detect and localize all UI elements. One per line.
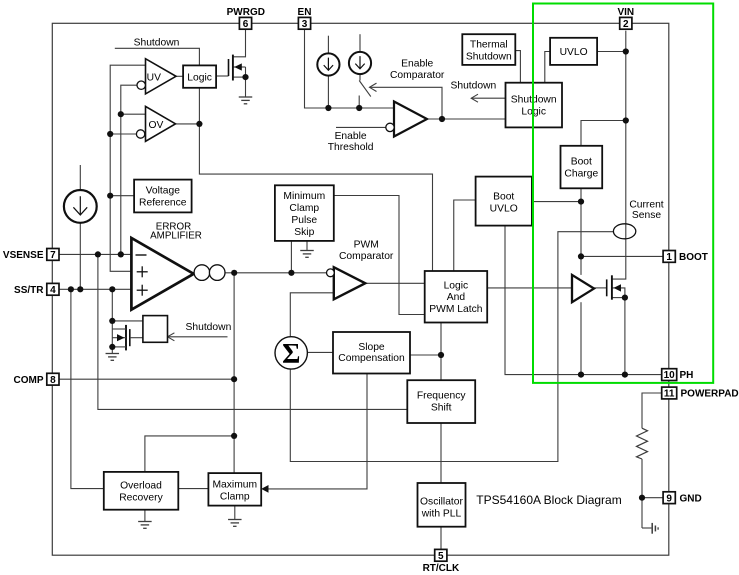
svg-text:Skip: Skip [294, 227, 314, 238]
svg-text:Boot: Boot [571, 157, 592, 168]
svg-text:Recovery: Recovery [119, 493, 163, 504]
svg-text:Thermal: Thermal [470, 39, 508, 50]
svg-text:GND: GND [680, 493, 702, 504]
svg-text:Clamp: Clamp [289, 203, 319, 214]
svg-text:BOOT: BOOT [679, 252, 708, 263]
svg-text:9: 9 [666, 493, 672, 504]
svg-text:VIN: VIN [617, 7, 634, 18]
svg-text:TPS54160A Block Diagram: TPS54160A Block Diagram [476, 493, 621, 507]
svg-text:2: 2 [623, 19, 629, 30]
svg-text:Clamp: Clamp [220, 492, 250, 503]
svg-text:RT/CLK: RT/CLK [423, 563, 460, 574]
svg-text:Comparator: Comparator [339, 251, 394, 262]
svg-text:with PLL: with PLL [421, 509, 462, 520]
svg-text:COMP: COMP [14, 375, 44, 386]
svg-text:Σ: Σ [282, 339, 300, 370]
svg-text:Enable: Enable [335, 131, 367, 142]
svg-text:Minimum: Minimum [283, 191, 325, 202]
svg-text:AMPLIFIER: AMPLIFIER [150, 231, 202, 242]
svg-text:Reference: Reference [139, 198, 187, 209]
svg-text:Pulse: Pulse [291, 215, 317, 226]
svg-text:Shutdown: Shutdown [466, 51, 512, 62]
svg-text:Comparator: Comparator [390, 70, 445, 81]
svg-text:Charge: Charge [564, 169, 598, 180]
svg-text:Compensation: Compensation [338, 353, 405, 364]
svg-text:Logic: Logic [187, 72, 212, 83]
svg-text:8: 8 [50, 375, 56, 386]
svg-text:Frequency: Frequency [417, 391, 467, 402]
svg-text:UVLO: UVLO [490, 204, 518, 215]
svg-text:Logic: Logic [444, 280, 469, 291]
svg-text:Shutdown: Shutdown [186, 322, 232, 333]
svg-text:PWM: PWM [354, 239, 379, 250]
svg-text:PWM Latch: PWM Latch [429, 304, 482, 315]
svg-text:Maximum: Maximum [212, 480, 257, 491]
svg-text:PH: PH [680, 370, 694, 381]
svg-text:UVLO: UVLO [560, 47, 588, 58]
svg-text:4: 4 [50, 285, 56, 296]
svg-text:Sense: Sense [632, 210, 661, 221]
svg-text:Boot: Boot [493, 192, 514, 203]
svg-text:Current: Current [629, 199, 663, 210]
svg-text:Threshold: Threshold [328, 142, 374, 153]
svg-text:And: And [447, 292, 466, 303]
svg-text:Oscillator: Oscillator [420, 497, 463, 508]
svg-text:Shutdown: Shutdown [450, 81, 496, 92]
svg-text:Slope: Slope [358, 342, 385, 353]
svg-text:7: 7 [50, 250, 56, 261]
svg-text:5: 5 [438, 551, 444, 562]
svg-text:11: 11 [664, 389, 675, 400]
svg-text:6: 6 [243, 19, 249, 30]
svg-text:1: 1 [666, 252, 672, 263]
svg-text:3: 3 [302, 19, 308, 30]
svg-text:POWERPAD: POWERPAD [681, 388, 739, 399]
svg-text:OV: OV [149, 120, 164, 131]
svg-text:PWRGD: PWRGD [227, 7, 265, 18]
svg-text:Enable: Enable [401, 58, 433, 69]
svg-text:Shutdown: Shutdown [134, 38, 180, 49]
svg-text:Overload: Overload [120, 481, 162, 492]
svg-text:10: 10 [664, 370, 676, 381]
svg-text:Shift: Shift [431, 403, 452, 414]
svg-text:Voltage: Voltage [146, 186, 181, 197]
svg-text:SS/TR: SS/TR [14, 285, 44, 296]
svg-text:UV: UV [147, 72, 161, 83]
svg-text:VSENSE: VSENSE [3, 250, 44, 261]
svg-text:EN: EN [298, 7, 312, 18]
